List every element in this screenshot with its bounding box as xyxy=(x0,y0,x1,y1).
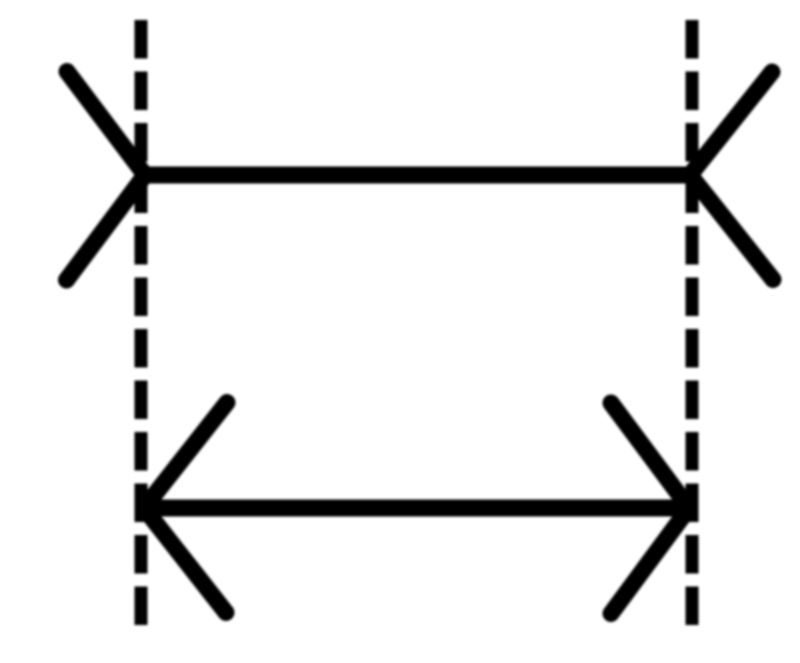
top-right upper fin xyxy=(690,72,772,175)
bottom shaft (arrowheads-in figure) xyxy=(144,500,689,517)
bottom-right lower fin xyxy=(611,508,689,614)
right dashed reference line xyxy=(686,20,699,626)
top shaft (fins-out figure) xyxy=(145,167,690,184)
top-right lower fin xyxy=(690,175,773,280)
bottom-right upper fin xyxy=(611,403,689,508)
top-left lower fin xyxy=(67,175,146,280)
top-left upper fin xyxy=(67,72,145,176)
bottom-left lower fin xyxy=(144,508,226,613)
left dashed reference line xyxy=(135,20,148,626)
bottom-left upper fin xyxy=(144,403,227,509)
